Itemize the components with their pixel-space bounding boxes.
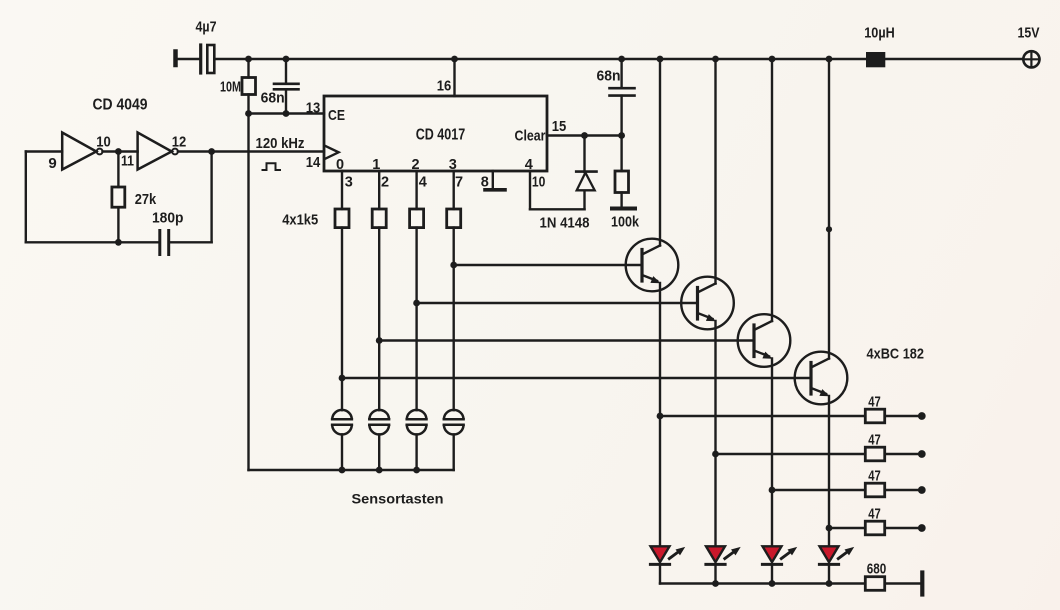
wire pin out 0 from IC (341, 171, 343, 209)
pin number 10 (532, 175, 546, 191)
wire pin out 1 from IC (378, 171, 380, 209)
junction rail at 68n (283, 56, 290, 63)
wire row 2 to resistor (716, 453, 866, 455)
label 100k (611, 214, 640, 231)
svg-text:47: 47 (868, 394, 881, 410)
label 15V (1018, 25, 1040, 42)
wire rail to 68n left (285, 59, 287, 84)
label 4x1k5 (282, 213, 318, 229)
svg-text:1N 4148: 1N 4148 (540, 215, 590, 232)
wire pin out 3 from IC (453, 171, 455, 209)
wire emitter Q1 down (659, 283, 661, 547)
inductor 10µH (866, 52, 885, 67)
wire pin3 resistor to sensor (453, 228, 455, 411)
resistor 27k (112, 187, 125, 207)
output label 2 (411, 157, 419, 173)
svg-text:11: 11 (121, 153, 134, 170)
wire row 3 to resistor (772, 489, 865, 491)
wire resistor 47 #3 to pad (885, 489, 919, 491)
wire base pin0 to transistor (342, 377, 811, 379)
junction rail 68n right (618, 56, 625, 63)
svg-text:68n: 68n (261, 90, 285, 107)
svg-text:180p: 180p (152, 210, 184, 227)
sensor pad S1 (332, 410, 352, 435)
label 68n right (597, 68, 621, 85)
clock input symbol pin 14 (324, 145, 339, 159)
wire node 11 between inverters (103, 150, 138, 152)
wire row 1 to resistor (660, 415, 865, 417)
junction CE node (245, 110, 252, 117)
resistor 680 (865, 577, 884, 591)
junction base tap pin3 (450, 262, 457, 269)
LED D1 (650, 546, 669, 564)
svg-text:CD 4049: CD 4049 (93, 97, 148, 114)
wire LED D3 cathode (771, 564, 773, 583)
resistor 1k5 #3 (410, 209, 424, 228)
wire 10M down / sensor common vertical (247, 95, 249, 471)
wire feedback right vertical (210, 152, 212, 243)
resistor 100k (615, 171, 629, 193)
transistor Q4 BC182 (795, 352, 848, 405)
LED D1 light arrow (669, 547, 685, 559)
label 10µH (864, 25, 895, 42)
wire LED D2 cathode (714, 564, 716, 583)
inverter U1b (pins 11-12) (138, 133, 178, 170)
capacitor 68n (left) (274, 84, 299, 90)
wire 68n to CE node (285, 89, 287, 113)
junction emitter row Q3 (769, 487, 776, 494)
label 47 #1 (868, 394, 881, 410)
resistor 47 #2 (865, 447, 884, 461)
junction rail Q3 (769, 56, 776, 63)
wire input to C1 (176, 58, 200, 60)
wire LED D1 cathode (659, 564, 661, 583)
resistor 10M (242, 78, 256, 95)
svg-text:4µ7: 4µ7 (196, 19, 217, 36)
terminal pad row 3 (918, 486, 926, 494)
junction Clear-diode (581, 132, 588, 139)
wire resistor 47 #2 to pad (885, 453, 919, 455)
ground pin 8 (485, 171, 505, 190)
label 4µ7 (196, 19, 217, 36)
wire rail to 15V terminal (885, 58, 1023, 60)
svg-text:10M: 10M (220, 79, 241, 96)
LED D2 light arrow (725, 547, 741, 559)
svg-text:13: 13 (306, 100, 321, 117)
svg-text:15: 15 (552, 118, 567, 135)
svg-text:3: 3 (345, 175, 353, 191)
terminal pad row 4 (918, 524, 926, 532)
output label 4 (525, 157, 533, 173)
svg-text:12: 12 (172, 134, 187, 151)
junction rail Q1 (657, 56, 664, 63)
terminal input pad (173, 52, 178, 66)
junction LED common (769, 580, 776, 587)
transistor Q3 BC182 (738, 314, 791, 367)
sensor pad S4 (444, 410, 464, 435)
ground bar 100k (612, 207, 635, 211)
junction rail Q2 (712, 56, 719, 63)
wire Clear to 100k (620, 136, 622, 172)
wire feedback bottom left (26, 241, 160, 243)
IC CD 4017 box (324, 96, 547, 171)
capacitor 180p (160, 231, 169, 255)
wire node11 to 27k (117, 152, 119, 188)
wire emitter Q2 down (714, 321, 716, 547)
wire pin 4/10 down (529, 171, 531, 209)
junction sensor common (339, 467, 346, 474)
pin number 8 (481, 175, 489, 191)
pin label 15 (552, 118, 567, 135)
wire U1a input (26, 150, 62, 152)
wire oscillator output 12 (178, 150, 324, 152)
wire base pin3 to transistor (454, 264, 642, 266)
pin number 7 (455, 175, 463, 191)
wire sensor S4 to common (453, 434, 455, 470)
pin label 10 (96, 134, 111, 151)
transistor Q2 BC182 (681, 277, 734, 330)
label 47 #3 (868, 468, 881, 484)
label 68n left (261, 90, 285, 107)
output label 1 (372, 157, 380, 173)
junction sensor common (413, 467, 420, 474)
label 180p (152, 210, 184, 227)
svg-text:2: 2 (381, 175, 389, 191)
label 47 #2 (868, 432, 881, 448)
svg-text:15V: 15V (1018, 25, 1040, 42)
wire emitter Q4 down (828, 396, 830, 547)
svg-text:47: 47 (868, 506, 881, 522)
wire sensor S1 to common (341, 434, 343, 470)
svg-text:68n: 68n (597, 68, 621, 85)
svg-text:4xBC 182: 4xBC 182 (867, 346, 925, 363)
label Clear (515, 128, 546, 145)
terminal bar 680 (920, 573, 924, 595)
svg-text:Sensortasten: Sensortasten (352, 491, 444, 507)
terminal pad row 1 (918, 412, 926, 420)
wire diode anode (583, 191, 585, 210)
wire pin10 to diode (530, 208, 585, 210)
junction Clear-100k (618, 132, 625, 139)
LED D2 (706, 546, 725, 564)
LED D4 (819, 546, 838, 564)
wire collector Q1 to rail (659, 59, 661, 246)
wire row 4 to resistor (829, 527, 865, 529)
wire resistor 47 #4 to pad (885, 527, 919, 529)
svg-text:10: 10 (96, 134, 111, 151)
transistor Q1 BC182 (626, 239, 679, 292)
pin label 16 (437, 78, 452, 95)
wire emitter Q3 down (771, 359, 773, 547)
svg-text:27k: 27k (135, 191, 157, 208)
sensor pad S3 (407, 410, 427, 435)
svg-text:CD 4017: CD 4017 (416, 127, 466, 144)
label 680 (867, 561, 887, 578)
junction LED common (712, 580, 719, 587)
label 27k (135, 191, 157, 208)
svg-text:9: 9 (48, 155, 56, 172)
inverter U1a (pins 9-10) (62, 133, 102, 170)
svg-text:680: 680 (867, 561, 887, 578)
label CE (328, 107, 345, 124)
label 47 #4 (868, 506, 881, 522)
junction rail at 10M (245, 56, 252, 63)
junction 68n bottom (283, 110, 290, 117)
pin label 11 (121, 153, 134, 170)
wire resistor 47 #1 to pad (885, 415, 919, 417)
wire feedback left vertical (25, 152, 27, 243)
wire LED D4 cathode (828, 564, 830, 583)
output label 3 (449, 157, 457, 173)
junction base tap pin1 (376, 337, 383, 344)
wire rail to 10M (247, 59, 249, 78)
resistor 1k5 #2 (372, 209, 386, 228)
wire collector Q2 to rail (714, 59, 716, 284)
junction emitter row Q4 (826, 525, 833, 532)
wire base pin1 to transistor (379, 339, 754, 341)
wire sensor common bottom (249, 469, 454, 471)
label CD 4017 (416, 127, 466, 144)
svg-text:Clear: Clear (515, 128, 546, 145)
wire collector Q4 to rail (828, 59, 830, 359)
sensor pad S2 (369, 410, 389, 435)
svg-text:CE: CE (328, 107, 345, 124)
junction output node (208, 148, 215, 155)
svg-text:16: 16 (437, 78, 452, 95)
label 1N 4148 (540, 215, 590, 232)
wire base pin2 to transistor (417, 302, 698, 304)
pin label 14 (306, 154, 321, 171)
svg-text:100k: 100k (611, 214, 640, 231)
wire sensor S3 to common (415, 434, 417, 470)
wire LED common bottom (660, 582, 865, 584)
junction emitter row Q2 (712, 451, 719, 458)
capacitor 4µ7 (electrolytic) (201, 45, 215, 73)
pin number 4 (419, 175, 427, 191)
terminal pad row 2 (918, 450, 926, 458)
resistor 1k5 #4 (447, 209, 461, 228)
wire sensor S2 to common (378, 434, 380, 470)
LED D3 light arrow (781, 547, 797, 559)
svg-text:47: 47 (868, 468, 881, 484)
capacitor 68n (right) (610, 88, 635, 95)
resistor 47 #1 (865, 409, 884, 423)
pin number 2 (381, 175, 389, 191)
junction LED common (826, 580, 833, 587)
wire 680 to terminal (885, 582, 920, 584)
wire pin1 resistor to sensor (378, 228, 380, 411)
pin number 3 (345, 175, 353, 191)
output label 0 (336, 157, 344, 173)
junction node 11 (115, 148, 122, 155)
svg-text:14: 14 (306, 154, 321, 171)
svg-text:7: 7 (455, 175, 463, 191)
terminal 15V (circled plus) (1023, 51, 1039, 67)
svg-text:4: 4 (419, 175, 427, 191)
wire 27k to feedback (117, 207, 119, 242)
wire pin 15 Clear net (547, 134, 622, 136)
label 4xBC 182 (867, 346, 925, 363)
wire pin 16 to rail (453, 59, 455, 96)
wire 68n right to Clear (620, 96, 622, 136)
junction rail Q4 (826, 56, 833, 63)
wire +15V rail (215, 58, 866, 60)
label 10M (220, 79, 241, 96)
svg-text:10: 10 (532, 175, 546, 191)
junction rail pin16 (451, 56, 458, 63)
wire pin out 2 from IC (415, 171, 417, 209)
svg-text:10µH: 10µH (864, 25, 895, 42)
label Sensortasten (352, 491, 444, 507)
wire pin0 resistor to sensor (341, 228, 343, 411)
label 120 kHz (256, 135, 305, 152)
junction sensor common (376, 467, 383, 474)
wire diode cathode to Clear (583, 136, 585, 173)
clock pulse symbol (262, 163, 282, 170)
junction 27k bottom (115, 239, 122, 246)
junction base tap pin0 (339, 375, 346, 382)
wire feedback bottom right (169, 241, 212, 243)
label CD 4049 (93, 97, 148, 114)
LED D3 (762, 546, 781, 564)
pin label 13 (306, 100, 321, 117)
resistor 47 #3 (865, 483, 884, 497)
resistor 47 #4 (865, 521, 884, 535)
svg-text:47: 47 (868, 432, 881, 448)
LED D4 light arrow (838, 547, 854, 559)
wire CE net to pin 13 (249, 112, 325, 114)
ink blob on Q4 collector wire (826, 226, 832, 232)
resistor 1k5 #1 (335, 209, 349, 228)
svg-text:120 kHz: 120 kHz (256, 135, 305, 152)
pin label 9 (48, 155, 56, 172)
junction emitter row Q1 (657, 413, 664, 420)
svg-text:4x1k5: 4x1k5 (282, 213, 318, 229)
wire 100k to ground bar (620, 193, 622, 209)
wire collector Q3 to rail (771, 59, 773, 321)
junction base tap pin2 (413, 300, 420, 307)
wire rail to 68n right (620, 59, 622, 88)
wire pin2 resistor to sensor (415, 228, 417, 411)
diode 1N 4148 (576, 172, 596, 191)
pin label 12 (172, 134, 187, 151)
